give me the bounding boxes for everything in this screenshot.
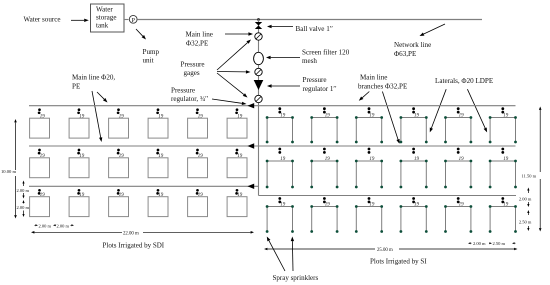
svg-text:19: 19	[369, 203, 375, 208]
svg-text:Ball valve 1′′: Ball valve 1′′	[296, 25, 334, 33]
SDI riser/emitter row 2 col 2	[77, 149, 84, 160]
arrow to tank inlet	[71, 19, 89, 22]
wire lateral/branch row 2	[29, 145, 516, 147]
svg-text:19: 19	[40, 154, 46, 159]
SDI plot square row 1 col 2	[69, 118, 89, 138]
SI riser/valve row 1 col 3	[368, 107, 375, 118]
SI riser/valve row 3 col 5	[457, 197, 464, 208]
svg-text:2.00 m: 2.00 m	[519, 196, 532, 201]
SDI plot square row 3 col 5	[188, 197, 208, 217]
SI lateral (sprinkler stand) row 3 col 3	[355, 205, 383, 233]
svg-text:Φ63,PE: Φ63,PE	[394, 50, 416, 58]
svg-text:Screen filter 120: Screen filter 120	[302, 49, 350, 57]
SDI plot square row 1 col 1	[30, 118, 50, 138]
svg-text:19: 19	[280, 114, 286, 119]
pressure gauge 3	[255, 95, 262, 102]
SDI riser/emitter row 1 col 2	[77, 108, 84, 119]
svg-text:branches Φ32,PE: branches Φ32,PE	[358, 83, 407, 91]
svg-text:19: 19	[158, 154, 164, 159]
svg-text:19: 19	[414, 203, 420, 208]
svg-text:gages: gages	[184, 69, 200, 77]
SI lateral (sprinkler stand) row 3 col 4	[400, 205, 428, 233]
svg-text:19: 19	[325, 114, 331, 119]
svg-text:Main line: Main line	[186, 30, 213, 38]
dimension 22.00 m	[31, 231, 122, 234]
svg-text:mesh: mesh	[302, 57, 317, 65]
svg-text:19: 19	[369, 114, 375, 119]
svg-text:10.00 m: 10.00 m	[1, 169, 16, 174]
svg-text:Spray sprinklers: Spray sprinklers	[273, 274, 319, 282]
arrow to SDI lateral row 1	[97, 92, 108, 103]
svg-text:Pump: Pump	[143, 48, 160, 56]
SI riser/valve row 2 col 6	[501, 148, 508, 163]
SI riser/valve row 1 col 4	[412, 107, 419, 118]
svg-text:tank: tank	[96, 22, 109, 30]
main line (network line) horizontal	[137, 19, 482, 21]
svg-text:2.00 m: 2.00 m	[57, 223, 70, 228]
SDI riser/emitter row 1 col 6	[235, 108, 242, 119]
svg-text:19: 19	[325, 203, 331, 208]
svg-text:19: 19	[40, 115, 46, 120]
svg-text:2.00 m: 2.00 m	[39, 223, 52, 228]
arrow to screen filter	[266, 56, 300, 59]
wire lateral/branch row 1	[29, 105, 516, 107]
arrow to lateral b	[467, 89, 487, 132]
svg-text:25.00 m: 25.00 m	[377, 248, 393, 253]
svg-text:2.50 m: 2.50 m	[493, 241, 506, 246]
svg-text:19: 19	[414, 114, 420, 119]
dimension 2.50 m (right)	[527, 210, 529, 215]
SDI plot square row 1 col 6	[227, 118, 247, 138]
svg-text:2.00 m: 2.00 m	[17, 188, 30, 193]
wire SI branch row 3	[259, 195, 517, 197]
SDI riser/emitter row 1 col 1	[38, 108, 46, 119]
SDI riser/emitter row 3 col 2	[77, 189, 84, 198]
svg-text:19: 19	[79, 193, 85, 198]
SI lateral (sprinkler stand) row 2 col 2	[310, 160, 338, 189]
SI riser/valve row 2 col 3	[368, 148, 375, 163]
water storage tank	[91, 4, 125, 32]
SDI riser/emitter row 1 col 4	[156, 108, 163, 119]
SDI plot square row 3 col 6	[227, 197, 247, 217]
svg-text:19: 19	[158, 193, 164, 198]
SDI plot square row 2 col 5	[188, 158, 208, 178]
SI riser/valve row 3 col 2	[323, 197, 330, 208]
arrow to branch row 2	[382, 92, 399, 144]
svg-text:19: 19	[325, 157, 331, 162]
SDI plot square row 1 col 3	[109, 118, 129, 138]
SDI riser/emitter row 2 col 4	[156, 149, 163, 160]
SI riser/valve row 2 col 5	[457, 148, 464, 163]
wire SDI lateral row 3	[29, 185, 259, 187]
svg-text:19: 19	[79, 154, 85, 159]
pump P	[129, 15, 137, 23]
SI riser/valve row 3 col 6	[501, 197, 508, 208]
pressure regulator 3/4in at SDI inlet row 2	[247, 143, 254, 148]
wire tank to pump	[124, 19, 129, 21]
svg-text:19: 19	[280, 203, 286, 208]
arrow to gauge 1	[217, 40, 251, 71]
SI lateral (sprinkler stand) row 1 col 2	[310, 116, 338, 143]
svg-text:19: 19	[158, 115, 164, 120]
svg-text:2.00 m: 2.00 m	[17, 205, 30, 210]
svg-text:19: 19	[280, 157, 286, 162]
SI lateral (sprinkler stand) row 2 col 1	[266, 160, 294, 189]
SDI plot square row 3 col 2	[69, 197, 89, 217]
svg-text:19: 19	[503, 114, 509, 119]
SDI riser/emitter row 3 col 4	[156, 189, 163, 198]
SDI riser/emitter row 1 col 3	[117, 108, 125, 119]
svg-text:22.00 m: 22.00 m	[123, 231, 139, 236]
SDI riser/emitter row 1 col 5	[196, 108, 203, 119]
arrow to SDI lateral row 2	[92, 91, 102, 142]
svg-text:Water source: Water source	[24, 16, 61, 24]
svg-text:19: 19	[79, 115, 85, 120]
svg-text:19: 19	[459, 114, 465, 119]
dimension 11.50 m (right)	[539, 107, 542, 173]
SDI plot square row 3 col 4	[148, 197, 168, 217]
svg-text:19: 19	[40, 193, 46, 198]
ball valve	[255, 22, 262, 26]
SI lateral (sprinkler stand) row 1 col 1	[266, 116, 294, 143]
SI lateral (sprinkler stand) row 1 col 3	[355, 116, 383, 143]
svg-text:unit: unit	[143, 57, 154, 65]
svg-text:Φ32,PE: Φ32,PE	[186, 39, 208, 47]
SI riser/valve row 1 col 2	[323, 107, 330, 118]
SDI riser/emitter row 2 col 6	[235, 149, 242, 160]
svg-text:11.50 m: 11.50 m	[522, 174, 537, 179]
arrow to sprinkler 2	[291, 237, 294, 272]
arrow to main line pipe	[225, 32, 253, 35]
svg-text:19: 19	[237, 115, 243, 120]
svg-text:19: 19	[369, 157, 375, 162]
SI riser/valve row 3 col 3	[368, 197, 375, 208]
svg-text:19: 19	[119, 115, 125, 120]
SI lateral (sprinkler stand) row 2 col 5	[444, 160, 472, 189]
svg-text:Laterals, Φ20 LDPE: Laterals, Φ20 LDPE	[435, 77, 493, 85]
SI lateral (sprinkler stand) row 1 col 4	[400, 116, 428, 143]
svg-text:19: 19	[198, 115, 204, 120]
SI lateral (sprinkler stand) row 3 col 6	[489, 205, 517, 233]
SDI plot square row 1 col 5	[188, 118, 208, 138]
svg-text:19: 19	[237, 193, 243, 198]
svg-text:Pressure: Pressure	[181, 60, 205, 68]
dimension 25.00 m	[264, 248, 375, 251]
SI riser/valve row 2 col 4	[412, 148, 419, 163]
SDI plot square row 2 col 4	[148, 158, 168, 178]
SDI plot square row 3 col 1	[30, 197, 50, 217]
arrow to branch row 1	[359, 92, 370, 101]
SI lateral (sprinkler stand) row 3 col 2	[310, 205, 338, 233]
emitter spacing 2.00 m / 2.00 m (bottom left)	[35, 224, 39, 226]
pressure gauge 2	[255, 68, 262, 75]
SI lateral (sprinkler stand) row 3 col 1	[266, 205, 294, 233]
pressure regulator 3/4in at SDI inlet row 3	[247, 184, 254, 189]
SI riser/valve row 2 col 2	[323, 148, 330, 163]
svg-text:Plots Irrigated by SI: Plots Irrigated by SI	[370, 258, 427, 266]
dimension 2.00 m (left lower)	[22, 200, 24, 204]
pressure gauge 1	[255, 33, 262, 40]
svg-text:Water: Water	[96, 6, 113, 14]
svg-text:Main line Φ20,: Main line Φ20,	[72, 74, 115, 82]
dimension 10.00 m (left)	[14, 119, 17, 170]
SDI riser/emitter row 3 col 3	[117, 189, 125, 198]
SDI riser/emitter row 2 col 1	[38, 149, 46, 160]
arrow from network line to label	[420, 24, 446, 36]
SDI riser/emitter row 3 col 5	[196, 189, 203, 198]
SI riser/valve row 1 col 5	[457, 107, 464, 118]
svg-text:storage: storage	[96, 14, 117, 22]
SDI plot square row 3 col 3	[109, 197, 129, 217]
svg-text:Plots Irrigated by SDI: Plots Irrigated by SDI	[103, 241, 165, 249]
svg-text:PE: PE	[72, 82, 80, 90]
svg-text:Pressure: Pressure	[303, 76, 327, 84]
SI lateral (sprinkler stand) row 1 col 6	[489, 116, 517, 143]
svg-text:19: 19	[119, 154, 125, 159]
SDI plot square row 1 col 4	[148, 118, 168, 138]
SDI riser/emitter row 2 col 3	[117, 149, 125, 160]
svg-text:19: 19	[119, 193, 125, 198]
SI lateral (sprinkler stand) row 2 col 6	[489, 160, 517, 189]
svg-text:Network line: Network line	[394, 41, 431, 49]
SI riser/valve row 1 col 6	[501, 107, 508, 118]
SI riser/valve row 3 col 4	[412, 197, 419, 208]
SI riser/valve row 1 col 1	[278, 107, 285, 118]
SDI riser/emitter row 2 col 5	[196, 149, 203, 160]
svg-text:Main line: Main line	[360, 74, 387, 82]
SI lateral (sprinkler stand) row 1 col 5	[444, 116, 472, 143]
svg-text:19: 19	[198, 154, 204, 159]
SDI plot square row 2 col 2	[69, 158, 89, 178]
svg-text:19: 19	[237, 154, 243, 159]
arrow to pressure regulator	[267, 84, 300, 87]
dimension 2.00 m (left upper)	[22, 181, 24, 187]
arrow to gauge 2	[217, 70, 251, 73]
dimension 2.00 m (right)	[527, 188, 529, 194]
svg-text:regulator, ¾′′: regulator, ¾′′	[171, 95, 209, 103]
svg-text:2.00 m: 2.00 m	[473, 241, 486, 246]
svg-text:19: 19	[459, 157, 465, 162]
SDI plot square row 2 col 1	[30, 158, 50, 178]
svg-text:Pressure: Pressure	[171, 86, 195, 94]
SI lateral (sprinkler stand) row 2 col 4	[400, 160, 428, 189]
wire vertical main line branch	[258, 20, 260, 196]
pressure regulator 1in (triangle)	[254, 80, 264, 90]
svg-text:19: 19	[414, 157, 420, 162]
SI riser/valve row 3 col 1	[278, 197, 285, 208]
SI riser/valve row 2 col 1	[278, 148, 285, 163]
arrow to pump unit label	[136, 29, 146, 40]
arrow to SDI regulator	[212, 99, 247, 105]
svg-text:P: P	[131, 17, 135, 24]
svg-text:regulator 1′′: regulator 1′′	[303, 85, 337, 93]
SDI riser/emitter row 3 col 6	[235, 189, 242, 198]
SDI plot square row 2 col 6	[227, 158, 247, 178]
SI lateral (sprinkler stand) row 2 col 3	[355, 160, 383, 189]
svg-text:19: 19	[459, 203, 465, 208]
SDI riser/emitter row 3 col 1	[38, 189, 46, 198]
pressure regulator 3/4in at SDI inlet row 1	[247, 103, 254, 108]
arrow to gauge 3	[217, 73, 248, 98]
svg-text:2.50 m: 2.50 m	[519, 219, 532, 224]
SDI plot square row 2 col 3	[109, 158, 129, 178]
sprinkler spacing 2.00 m / 2.50 m (bottom right)	[468, 242, 472, 244]
junction main line / vertical assembly	[257, 18, 260, 21]
svg-text:19: 19	[503, 203, 509, 208]
svg-text:19: 19	[198, 193, 204, 198]
screen filter	[254, 52, 264, 64]
SI lateral (sprinkler stand) row 3 col 5	[444, 205, 472, 233]
svg-text:19: 19	[503, 157, 509, 162]
arrow to ball valve	[267, 25, 293, 28]
arrow to sprinkler 1	[267, 237, 285, 272]
arrow to lateral a	[430, 89, 446, 132]
